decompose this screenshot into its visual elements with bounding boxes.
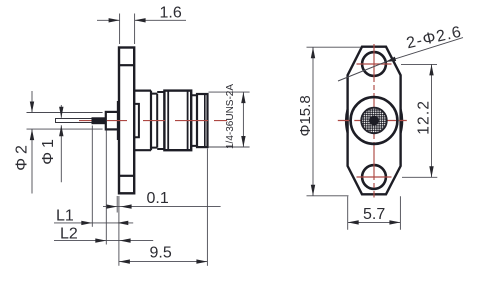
top hole horizontal centerline bbox=[357, 63, 392, 65]
L2 arrow right bbox=[120, 238, 131, 242]
svg-text:Φ2: Φ2 bbox=[13, 141, 30, 171]
bottom mounting hole bbox=[362, 165, 386, 189]
diameter 1 arrow bottom bbox=[59, 125, 63, 136]
dielectric knurl ring bbox=[361, 108, 387, 134]
flange plate (side view) bbox=[119, 48, 134, 194]
dimension 12.2 arrow bottom bbox=[429, 166, 433, 177]
thread chamfer line left bbox=[167, 92, 169, 150]
end cap inner edge bbox=[204, 95, 206, 147]
vertical centerline (front view) bbox=[373, 44, 375, 198]
diameter 1 dimension line bbox=[60, 105, 62, 182]
0.1 mm raised boss on flange front face bbox=[118, 102, 119, 140]
horizontal centerline (side view) bbox=[79, 120, 233, 122]
L2 arrow left bbox=[95, 238, 106, 242]
collar ring bbox=[157, 92, 164, 149]
thread size dimension line bbox=[242, 92, 244, 147]
flange outline (front view) bbox=[348, 47, 401, 195]
dimension 1.6 arrow left bbox=[109, 18, 120, 22]
hole callout arrow bbox=[386, 57, 397, 62]
svg-text:L2: L2 bbox=[60, 226, 78, 243]
dimension 0.1 arrow left bbox=[106, 204, 117, 208]
dimension 0.1 arrow right bbox=[121, 204, 132, 208]
boss behind flange bbox=[134, 104, 139, 137]
flange hole edge line (bottom ear) bbox=[120, 175, 133, 177]
diameter 1 arrow top bbox=[59, 107, 63, 118]
svg-text:Φ15.8: Φ15.8 bbox=[297, 95, 314, 136]
right side weld bump bbox=[401, 109, 403, 133]
diameter 15.8 arrow bottom bbox=[311, 185, 315, 196]
bottom hole horizontal centerline bbox=[357, 176, 392, 178]
top mounting hole bbox=[362, 52, 386, 76]
L1 arrow right bbox=[117, 221, 128, 225]
neck groove bbox=[151, 94, 157, 148]
dimension 1.6 arrow right bbox=[135, 18, 146, 22]
L2 extension line bbox=[105, 131, 107, 245]
diameter 2 extension lines bbox=[27, 113, 103, 130]
dimension 9.5 arrow left bbox=[119, 259, 130, 263]
thread chamfer line right bbox=[187, 92, 189, 150]
svg-text:1.6: 1.6 bbox=[160, 5, 182, 22]
dimension 5.7 extension lines bbox=[348, 196, 401, 229]
step ring bbox=[191, 95, 197, 146]
svg-text:L1: L1 bbox=[56, 208, 74, 225]
dimension 0.1 line bbox=[103, 206, 221, 208]
diameter 2 dimension line bbox=[31, 91, 33, 194]
left side weld bump bbox=[346, 109, 348, 133]
L2 dimension line bbox=[54, 240, 153, 242]
hole callout leader line bbox=[338, 38, 463, 81]
L1 extension line bbox=[91, 126, 93, 227]
dimension 9.5 line bbox=[119, 261, 207, 263]
main threaded body bbox=[164, 91, 191, 151]
insulator bushing block bbox=[106, 112, 119, 129]
thread size extension lines bbox=[209, 92, 250, 147]
center pin (thin contact) bbox=[56, 119, 93, 123]
L1 arrow left bbox=[81, 221, 92, 225]
dimension 5.7 line bbox=[348, 221, 401, 223]
diameter 15.8 arrow top bbox=[311, 47, 315, 58]
dimension 12.2 arrow top bbox=[429, 64, 433, 75]
dimension 12.2 line bbox=[431, 64, 433, 177]
thread size arrow top bbox=[241, 92, 245, 103]
svg-text:Φ1: Φ1 bbox=[40, 135, 57, 165]
center contact bbox=[369, 116, 379, 126]
body section behind flange bbox=[134, 91, 151, 151]
svg-text:9.5: 9.5 bbox=[150, 245, 172, 262]
svg-text:12.2: 12.2 bbox=[416, 100, 433, 135]
thread size arrow bottom bbox=[241, 136, 245, 147]
svg-text:5.7: 5.7 bbox=[363, 206, 385, 223]
diameter 2 arrow top bbox=[30, 102, 34, 113]
center horizontal centerline bbox=[338, 120, 410, 122]
dimension 5.7 arrow right bbox=[389, 220, 400, 224]
svg-text:0.1: 0.1 bbox=[147, 190, 169, 207]
dimension 9.5 arrow right bbox=[196, 259, 207, 263]
diameter 15.8 dimension line bbox=[312, 47, 314, 196]
dimension 5.7 arrow left bbox=[348, 220, 359, 224]
dimension 0.1 extension lines bbox=[117, 196, 119, 266]
diameter 15.8 extension lines bbox=[307, 47, 362, 196]
svg-text:1/4-36UNS-2A: 1/4-36UNS-2A bbox=[225, 84, 236, 149]
dimension 1.6 line bbox=[97, 19, 186, 21]
L1 dimension line bbox=[54, 222, 133, 224]
dimension 1.6 extension lines bbox=[120, 14, 135, 45]
dimension 9.5 extension line right bbox=[206, 149, 208, 266]
flange hole edge line (top ear) bbox=[120, 64, 133, 66]
pin collar (solid) bbox=[92, 117, 106, 124]
dimension 12.2 extension lines bbox=[401, 64, 437, 177]
diameter 2 arrow bottom bbox=[30, 129, 34, 140]
center boss circle bbox=[351, 97, 398, 144]
end coupling cap bbox=[197, 94, 208, 147]
